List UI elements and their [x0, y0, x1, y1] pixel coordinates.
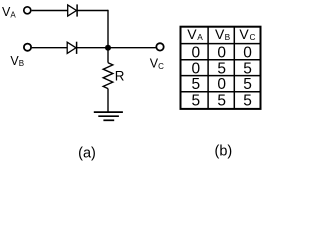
resistor R	[103, 63, 113, 89]
truth table row line 3	[181, 75, 261, 77]
svg-text:5: 5	[243, 92, 252, 109]
svg-text:C: C	[250, 32, 256, 42]
svg-text:V: V	[239, 26, 249, 42]
truth table row line 2	[181, 59, 261, 61]
svg-text:5: 5	[191, 76, 200, 93]
svg-text:0: 0	[217, 76, 226, 93]
wire VB terminal to diode D2	[32, 47, 68, 49]
svg-text:5: 5	[191, 92, 200, 109]
wire VA terminal to diode D1	[32, 10, 68, 12]
truth table row line 4	[181, 91, 261, 93]
svg-text:(a): (a)	[78, 146, 96, 162]
svg-text:R: R	[115, 69, 125, 84]
svg-text:VC: VC	[150, 57, 164, 71]
svg-text:0: 0	[243, 45, 252, 62]
truth table column line 1	[207, 27, 209, 109]
svg-text:A: A	[197, 32, 203, 42]
svg-text:(b): (b)	[215, 143, 233, 159]
wire D1 to corner	[78, 10, 109, 12]
terminal VC	[156, 43, 163, 50]
truth table outer frame	[181, 27, 261, 109]
wire resistor to ground	[107, 89, 109, 112]
diode D2	[67, 42, 76, 54]
diode D1	[68, 4, 77, 16]
svg-text:V: V	[187, 26, 197, 42]
ground	[94, 112, 123, 120]
svg-text:5: 5	[217, 92, 226, 109]
svg-text:0: 0	[217, 45, 226, 62]
junction node	[105, 45, 111, 51]
wire corner down to junction	[107, 10, 109, 48]
svg-text:V: V	[215, 26, 225, 42]
terminal VA	[24, 7, 31, 14]
terminal VB	[24, 44, 31, 51]
svg-text:VB: VB	[10, 54, 24, 68]
truth table column line 2	[233, 27, 235, 109]
wire junction to resistor	[107, 48, 109, 63]
svg-text:0: 0	[191, 45, 200, 62]
svg-text:VA: VA	[2, 5, 16, 19]
svg-text:5: 5	[243, 76, 252, 93]
svg-text:B: B	[225, 32, 231, 42]
truth table row line 1	[181, 43, 261, 45]
wire D2 to output terminal	[77, 47, 156, 49]
